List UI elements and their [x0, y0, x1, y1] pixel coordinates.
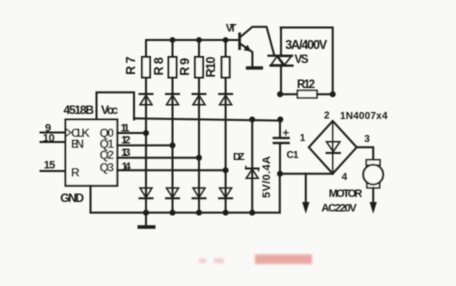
svg-text:VS: VS [295, 54, 309, 66]
svg-text:Q3: Q3 [100, 161, 115, 175]
svg-text:VT: VT [226, 22, 237, 34]
svg-text:13: 13 [121, 147, 131, 159]
svg-text:4518B: 4518B [64, 103, 95, 117]
svg-text:R12: R12 [297, 79, 315, 91]
svg-text:12: 12 [121, 135, 131, 147]
svg-text:R9: R9 [178, 58, 192, 76]
svg-text:DZ: DZ [233, 151, 245, 163]
svg-text:MOTOR: MOTOR [329, 188, 363, 200]
svg-text:R10: R10 [204, 56, 218, 77]
svg-text:3A/400V: 3A/400V [285, 38, 328, 52]
svg-text:11: 11 [121, 122, 130, 134]
svg-text:14: 14 [122, 161, 132, 173]
svg-text:4: 4 [342, 172, 348, 183]
svg-text:2: 2 [324, 111, 330, 122]
svg-text:R: R [71, 165, 80, 179]
svg-text:15: 15 [44, 160, 56, 172]
svg-text:3: 3 [364, 134, 370, 145]
svg-text:C1: C1 [287, 150, 299, 161]
svg-text:1: 1 [300, 133, 306, 144]
svg-text:GND: GND [60, 191, 84, 205]
svg-text:1N4007x4: 1N4007x4 [340, 111, 388, 122]
svg-text:5V/0.4A: 5V/0.4A [261, 156, 273, 198]
svg-text:Vcc: Vcc [101, 103, 118, 117]
svg-text:10: 10 [43, 132, 55, 144]
svg-text:AC220V: AC220V [321, 203, 357, 215]
svg-text:EN: EN [71, 137, 84, 151]
